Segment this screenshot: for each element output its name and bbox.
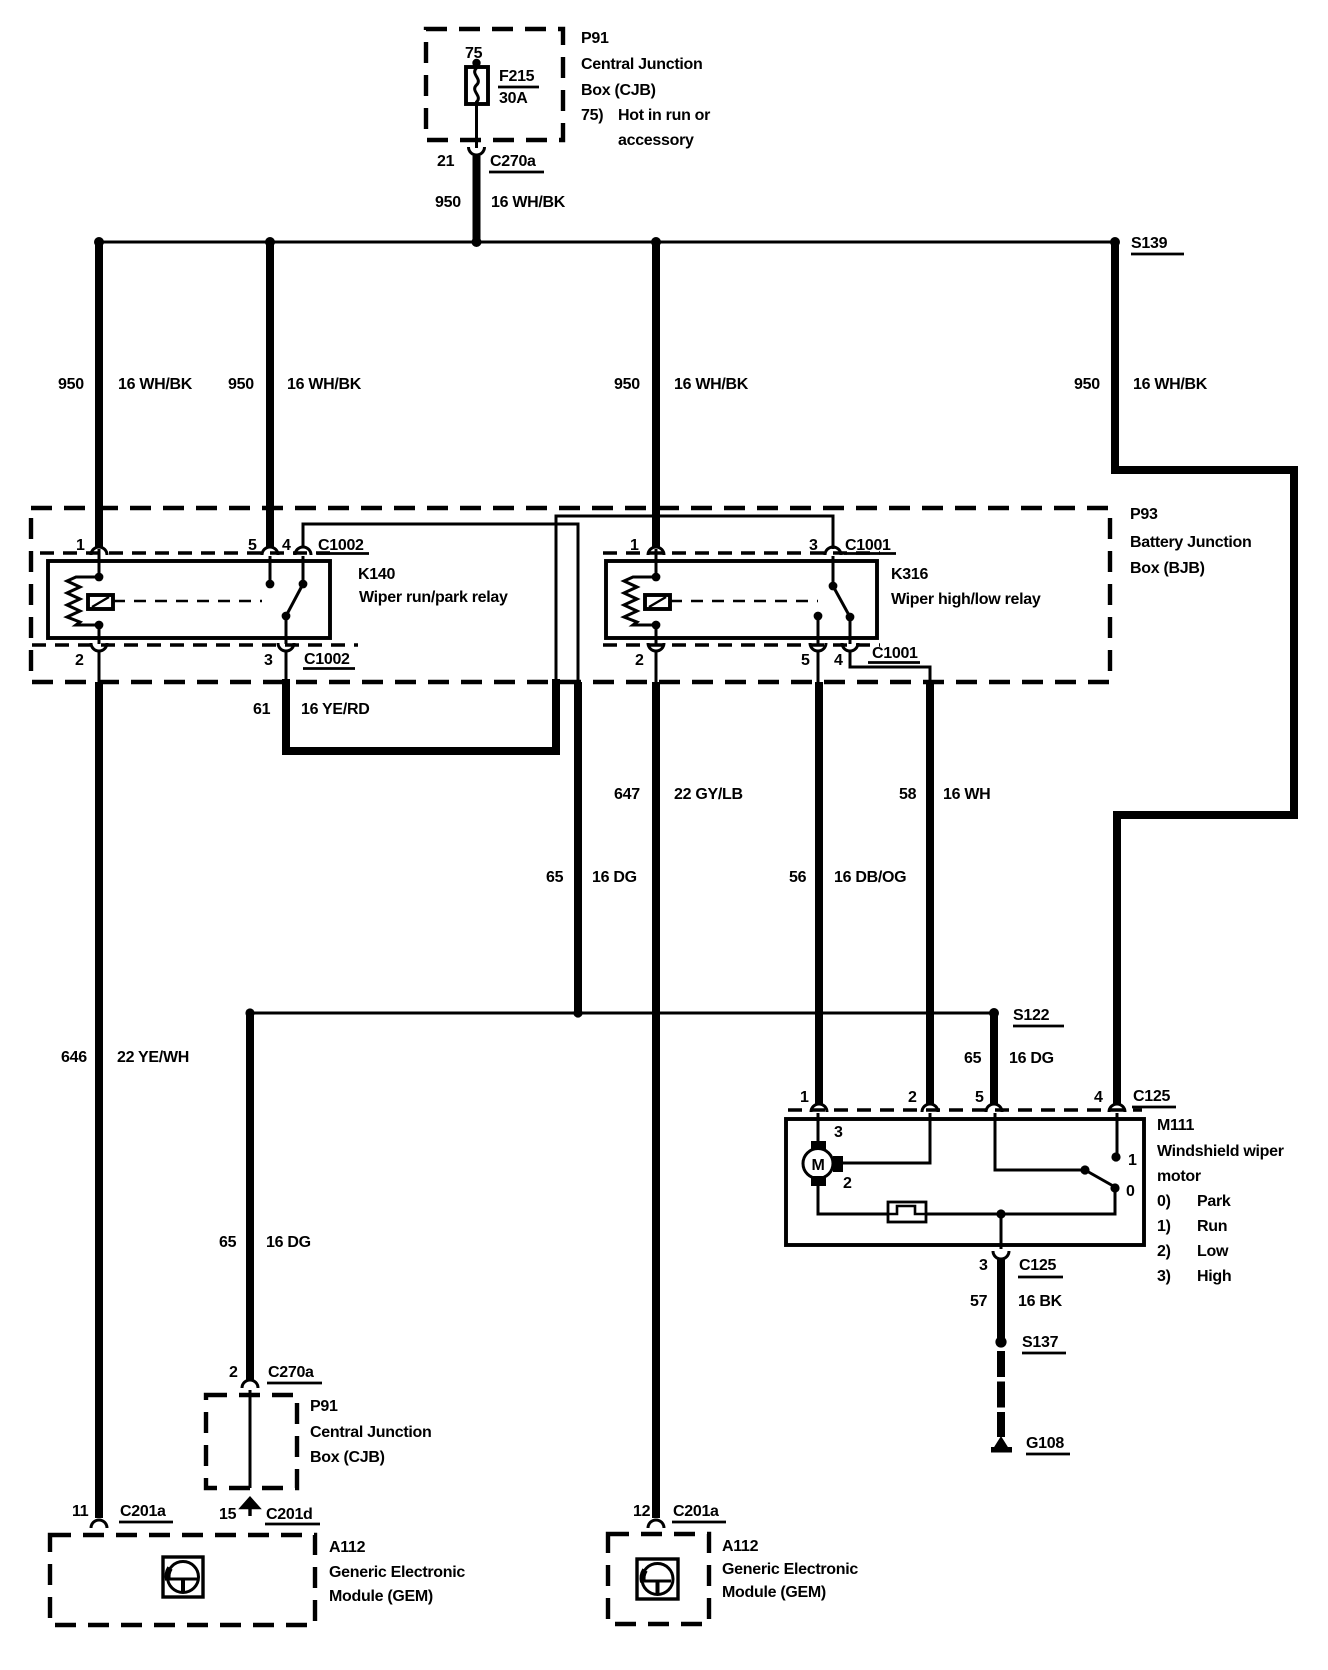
svg-text:16 DG: 16 DG: [1009, 1050, 1054, 1067]
wire breaker to park contact 0: [926, 1188, 1115, 1214]
connector line C1002 bottom: [32, 643, 358, 646]
splice S137: [995, 1336, 1006, 1347]
svg-text:65: 65: [964, 1050, 982, 1067]
wire K140 pin4 jog to 16 DG drop: [303, 524, 578, 682]
label 21 C270a: [437, 153, 544, 172]
connector C1001 pin 1: [648, 547, 664, 555]
svg-text:C125: C125: [1019, 1257, 1056, 1274]
wire feeder 950 right (around BJB): [1115, 242, 1294, 1105]
relay K140 box: [48, 561, 330, 638]
motor M111 box: [786, 1119, 1144, 1245]
pin 75 label: [465, 45, 483, 62]
connector C125 pin 1: [811, 1104, 827, 1112]
wire motor to breaker: [818, 1186, 888, 1214]
wire K316 pin 2 out of coil: [655, 625, 658, 644]
svg-text:646: 646: [61, 1049, 87, 1066]
svg-text:M111: M111: [1157, 1117, 1194, 1134]
svg-text:75: 75: [465, 45, 483, 62]
svg-text:C1001: C1001: [845, 537, 891, 554]
svg-text:Central Junction: Central Junction: [310, 1424, 431, 1441]
wire pin 2 to box edge: [98, 650, 101, 682]
svg-text:5: 5: [248, 537, 257, 554]
svg-text:5: 5: [801, 652, 810, 669]
svg-text:5: 5: [975, 1089, 984, 1106]
wire power bus S139: [96, 241, 1117, 244]
node K140 coil top: [95, 573, 104, 582]
svg-text:2: 2: [229, 1364, 238, 1381]
wire 65 16 DG (to CJB below): [246, 1013, 254, 1380]
svg-text:2: 2: [843, 1175, 852, 1192]
label P91 Central Junction Box (CJB) lower: [310, 1398, 431, 1466]
svg-text:Wiper run/park relay: Wiper run/park relay: [359, 589, 508, 606]
svg-text:Box (BJB): Box (BJB): [1130, 560, 1205, 577]
node park contact 0: [1110, 1183, 1119, 1192]
svg-text:Module (GEM): Module (GEM): [722, 1584, 826, 1601]
icon steering wheel GEM 2: [637, 1559, 678, 1599]
svg-text:12: 12: [633, 1503, 651, 1520]
label 15 C201d: [219, 1506, 320, 1524]
connector C1002 pin 3: [278, 643, 294, 651]
wire feeder 950 col1: [95, 242, 103, 548]
node pin 75 terminal: [472, 59, 480, 67]
svg-text:3: 3: [834, 1124, 843, 1141]
label 646 22 YE/WH: [61, 1049, 189, 1066]
wire 647 22 GY/LB (col3 long drop): [652, 682, 660, 1518]
wire C125 pin1 to motor brush: [817, 1113, 820, 1141]
svg-text:647: 647: [614, 786, 640, 803]
svg-text:Windshield wiper: Windshield wiper: [1157, 1143, 1284, 1160]
svg-text:11: 11: [72, 1503, 89, 1520]
motor M111 (armature): [803, 1141, 843, 1186]
svg-text:75): 75): [581, 107, 603, 124]
svg-text:16 WH/BK: 16 WH/BK: [674, 376, 749, 393]
label K140 Wiper run/park relay: [358, 566, 508, 606]
node K140 contact pin 5: [266, 580, 275, 589]
wire K140 pin 2 out of coil: [98, 625, 101, 644]
label S122: [1013, 1007, 1064, 1026]
svg-text:Module (GEM): Module (GEM): [329, 1588, 433, 1605]
connector line C1001 bottom: [603, 643, 880, 646]
label S139: [1131, 235, 1184, 254]
junction box P91 lower (dashed): [206, 1395, 297, 1488]
connector C125 pin 2: [922, 1104, 938, 1112]
svg-text:K140: K140: [358, 566, 395, 583]
svg-text:1: 1: [630, 537, 639, 554]
wire 57 16 BK: [997, 1258, 1005, 1338]
wire 65 16 DG (from K140 pin4 drop): [574, 682, 582, 1013]
label A112 GEM 1: [329, 1539, 465, 1605]
node K316 coil top: [652, 573, 661, 582]
wire K316 pin 2 to box edge: [655, 650, 658, 682]
svg-text:58: 58: [899, 786, 917, 803]
label M111 Windshield wiper motor: [1157, 1117, 1284, 1285]
wire fuse to connector C270a: [475, 104, 478, 148]
label pins 1 5 4 C1002 top: [76, 537, 369, 554]
label 3 C125 (below motor): [979, 1257, 1063, 1277]
svg-text:Park: Park: [1197, 1193, 1231, 1210]
svg-text:High: High: [1197, 1268, 1231, 1285]
svg-text:950: 950: [58, 376, 84, 393]
svg-text:F215: F215: [499, 68, 535, 85]
svg-text:65: 65: [219, 1234, 237, 1251]
connector C270a (fuse output): [469, 147, 485, 155]
svg-text:15: 15: [219, 1506, 237, 1523]
svg-text:1: 1: [800, 1089, 809, 1106]
label G108: [1026, 1435, 1070, 1454]
label P93 Battery Junction Box (BJB): [1130, 506, 1251, 577]
svg-text:4: 4: [1094, 1089, 1103, 1106]
node K140 contact pin 4: [299, 580, 308, 589]
svg-text:Run: Run: [1197, 1218, 1227, 1235]
connector C1001 pin 5: [810, 643, 826, 651]
node K140 coil bottom: [95, 621, 104, 630]
svg-text:3: 3: [979, 1257, 988, 1274]
svg-text:motor: motor: [1157, 1168, 1201, 1185]
relay switch K316 lever: [833, 586, 850, 617]
wire motor output to pin 3: [1000, 1214, 1003, 1249]
label P91 Central Junction Box (CJB): [581, 30, 710, 149]
svg-text:0): 0): [1157, 1193, 1171, 1210]
svg-text:16 DB/OG: 16 DB/OG: [834, 869, 906, 886]
wire K316 pin 4: [849, 617, 852, 644]
label 950 16 WH/BK col1: [58, 376, 193, 393]
node K316 contact pin 5: [814, 612, 823, 621]
svg-text:2: 2: [75, 652, 84, 669]
wire splice run S122 (horizontal): [250, 1012, 994, 1015]
svg-text:16 DG: 16 DG: [266, 1234, 311, 1251]
relay coil K316 (box symbol): [645, 595, 670, 609]
svg-text:C1002: C1002: [318, 537, 364, 554]
svg-text:Low: Low: [1197, 1243, 1229, 1260]
node K316 contact pin 3: [829, 582, 838, 591]
svg-text:C201a: C201a: [120, 1503, 166, 1520]
connector line C125: [788, 1108, 1142, 1111]
wire K140 pin 4 stub: [302, 556, 305, 584]
svg-text:1: 1: [1128, 1152, 1137, 1169]
circuit breaker (motor thermal): [888, 1202, 926, 1222]
wire 58 16 WH: [926, 682, 934, 1104]
node bus junction 1: [94, 237, 104, 247]
connector line C1001 top: [603, 551, 880, 554]
connector C201a (GEM 1): [91, 1520, 107, 1528]
svg-text:16 YE/RD: 16 YE/RD: [301, 701, 369, 718]
svg-text:16 DG: 16 DG: [592, 869, 637, 886]
svg-text:K316: K316: [891, 566, 928, 583]
wire C125 pin5 to wiper arm pivot: [995, 1113, 1085, 1170]
connector C1001 pin 4: [842, 643, 858, 651]
node corner at 65 16 DG drop: [245, 1008, 254, 1017]
label pins 1 2 5 4 C125: [800, 1088, 1176, 1107]
svg-text:S122: S122: [1013, 1007, 1050, 1024]
wire C125 pin2 to motor brush: [843, 1113, 930, 1163]
node park switch pivot: [1080, 1165, 1089, 1174]
relay coil K140 (box symbol): [88, 595, 113, 609]
label K316 Wiper high/low relay: [891, 566, 1041, 608]
svg-text:Generic Electronic: Generic Electronic: [722, 1561, 858, 1578]
wire feeder 950 col2: [266, 242, 274, 548]
svg-text:16 WH: 16 WH: [943, 786, 990, 803]
node bus junction 4: [651, 237, 661, 247]
label 950 16 WH/BK right: [1074, 376, 1208, 393]
label A112 GEM 2: [722, 1538, 858, 1601]
svg-text:3: 3: [264, 652, 273, 669]
svg-text:16 BK: 16 BK: [1018, 1293, 1063, 1310]
label 950 16 WH/BK col2: [228, 376, 362, 393]
svg-text:4: 4: [834, 652, 843, 669]
svg-text:2: 2: [908, 1089, 917, 1106]
wire 65 16 DG (S122 to motor): [990, 1013, 998, 1104]
resistor K316 coil winding: [624, 577, 656, 625]
svg-text:C201d: C201d: [266, 1506, 313, 1523]
node run contact 1: [1111, 1152, 1120, 1161]
svg-text:C270a: C270a: [268, 1364, 314, 1381]
label 65 16 DG (col 250): [219, 1234, 311, 1251]
svg-text:Box (CJB): Box (CJB): [581, 82, 656, 99]
svg-text:Central Junction: Central Junction: [581, 56, 702, 73]
svg-text:61: 61: [253, 701, 271, 718]
junction box P93 Battery Junction Box (dashed): [31, 508, 1110, 682]
svg-text:C1002: C1002: [304, 651, 350, 668]
wire K140 coil link (dashed): [113, 600, 262, 603]
connector line C1002 top: [40, 551, 336, 554]
node bus junction 2: [265, 237, 275, 247]
svg-text:Battery Junction: Battery Junction: [1130, 534, 1251, 551]
wire S137 to ground (dashed): [997, 1351, 1005, 1437]
svg-text:M: M: [811, 1157, 824, 1174]
svg-text:65: 65: [546, 869, 564, 886]
svg-text:C1001: C1001: [872, 645, 918, 662]
svg-text:1): 1): [1157, 1218, 1171, 1235]
svg-text:950: 950: [614, 376, 640, 393]
svg-text:21: 21: [437, 153, 455, 170]
connector C1002 pin 4: [295, 547, 311, 555]
wire K316 pin 3 stub: [832, 556, 835, 586]
fuse F215 30A: [466, 63, 488, 104]
resistor K140 coil winding: [67, 577, 99, 625]
module A112 GEM box 2 (dashed): [608, 1534, 709, 1624]
svg-text:Hot in run or: Hot in run or: [618, 107, 710, 124]
connector C1002 pin 2: [91, 643, 107, 651]
svg-text:P91: P91: [310, 1398, 338, 1415]
svg-text:C270a: C270a: [490, 153, 536, 170]
switch park lever: [1085, 1170, 1115, 1187]
node K140 lever pivot: [282, 612, 291, 621]
icon steering wheel GEM 1: [163, 1557, 203, 1597]
label 950 16 WH/BK (fuse feed): [435, 194, 566, 211]
wire 56 16 DB/OG: [815, 682, 823, 1104]
label 950 16 WH/BK col3: [614, 376, 749, 393]
svg-text:57: 57: [970, 1293, 988, 1310]
connector C125 pin 3: [993, 1251, 1009, 1259]
svg-text:3: 3: [809, 537, 818, 554]
svg-text:Wiper high/low relay: Wiper high/low relay: [891, 591, 1041, 608]
node bus junction 3: [472, 237, 482, 247]
svg-text:950: 950: [228, 376, 254, 393]
svg-text:Box (CJB): Box (CJB): [310, 1449, 385, 1466]
label 11 C201a: [72, 1503, 173, 1522]
label 61 16 YE/RD: [253, 701, 369, 718]
connector C1002 pin 5: [262, 547, 278, 555]
wire K140 pin 3: [285, 616, 288, 644]
wire K140 pin 5 stub: [269, 556, 272, 584]
label 57 16 BK: [970, 1293, 1063, 1310]
svg-text:0: 0: [1126, 1183, 1135, 1200]
wire K316 pin 5 to box edge: [817, 650, 820, 682]
connector C1001 pin 2: [648, 643, 664, 651]
svg-text:P91: P91: [581, 30, 609, 47]
wire 950 16 WH/BK (fuse feed): [473, 156, 481, 242]
label 65 16 DG (S122): [964, 1050, 1054, 1067]
node motor output junction: [996, 1209, 1005, 1218]
wire C125 pin4 to run contact 1: [1116, 1113, 1119, 1157]
relay switch K140 lever: [286, 584, 303, 616]
svg-text:A112: A112: [722, 1538, 759, 1555]
relay K316 box: [606, 561, 877, 638]
node K316 coil bottom: [652, 621, 661, 630]
svg-text:950: 950: [1074, 376, 1100, 393]
label pins 2 5 4 C1001 bottom: [635, 645, 920, 669]
splice S122: [989, 1008, 999, 1018]
svg-text:P93: P93: [1130, 506, 1158, 523]
svg-text:C125: C125: [1133, 1088, 1170, 1105]
label F215 30A: [498, 68, 539, 107]
wire K316 coil link (dashed): [670, 600, 818, 603]
svg-text:2): 2): [1157, 1243, 1171, 1260]
svg-text:A112: A112: [329, 1539, 366, 1556]
svg-text:16 WH/BK: 16 WH/BK: [287, 376, 362, 393]
connector C125 pin 4: [1109, 1104, 1125, 1112]
svg-text:G108: G108: [1026, 1435, 1064, 1452]
label 58 16 WH: [899, 786, 990, 803]
label 2 C270a: [229, 1364, 322, 1383]
svg-text:16 WH/BK: 16 WH/BK: [118, 376, 193, 393]
label 647 22 GY/LB: [614, 786, 743, 803]
connector C201d arrow: [242, 1499, 258, 1517]
svg-text:4: 4: [282, 537, 291, 554]
label S137: [1022, 1334, 1066, 1353]
label 56 16 DB/OG: [789, 869, 906, 886]
connector C1002 pin 1: [91, 547, 107, 555]
node K316 lever end: [846, 613, 855, 622]
label 65 16 DG (col 578): [546, 869, 637, 886]
svg-text:C201a: C201a: [673, 1503, 719, 1520]
label 12 C201a: [633, 1503, 726, 1522]
wire K140 pin3 feed to K316 pin3 (thin riser): [556, 516, 833, 682]
module A112 GEM box 1 (dashed): [50, 1535, 315, 1625]
wire K316 pin 4 jog to 16 WH drop: [850, 650, 930, 682]
wire K140 pin 1 into coil: [98, 549, 101, 577]
svg-text:22 GY/LB: 22 GY/LB: [674, 786, 743, 803]
label pins 2 3 C1002 bottom: [75, 651, 355, 669]
svg-text:950: 950: [435, 194, 461, 211]
wire 646 22 YE/WH (col1 long drop): [95, 682, 103, 1518]
connector C125 pin 5: [986, 1104, 1002, 1112]
svg-text:3): 3): [1157, 1268, 1171, 1285]
svg-text:16 WH/BK: 16 WH/BK: [491, 194, 566, 211]
svg-text:accessory: accessory: [618, 132, 694, 149]
svg-text:2: 2: [635, 652, 644, 669]
ground G108: [991, 1436, 1012, 1453]
svg-text:S137: S137: [1022, 1334, 1059, 1351]
wire through CJB: [249, 1390, 252, 1488]
svg-text:56: 56: [789, 869, 807, 886]
node junction 65 16 DG: [573, 1008, 582, 1017]
wire 61 16 YE/RD (U jog): [286, 679, 556, 751]
svg-text:30A: 30A: [499, 90, 528, 107]
wire K316 pin 5: [817, 616, 820, 644]
connector C201a (GEM 2): [648, 1520, 664, 1528]
svg-text:S139: S139: [1131, 235, 1168, 252]
junction box P91 (top, dashed): [426, 29, 563, 140]
connector C270a (lower): [242, 1380, 258, 1388]
svg-text:16 WH/BK: 16 WH/BK: [1133, 376, 1208, 393]
svg-text:Generic Electronic: Generic Electronic: [329, 1564, 465, 1581]
svg-text:1: 1: [76, 537, 85, 554]
wire K316 pin 1 into coil: [655, 549, 658, 577]
wire pin 3 to box edge: [285, 650, 288, 682]
connector C1001 pin 3: [825, 547, 841, 555]
label pins 1 3 C1001 top: [630, 537, 896, 554]
wire feeder 950 col3: [652, 242, 660, 548]
svg-text:22 YE/WH: 22 YE/WH: [117, 1049, 189, 1066]
splice S139: [1110, 237, 1120, 247]
